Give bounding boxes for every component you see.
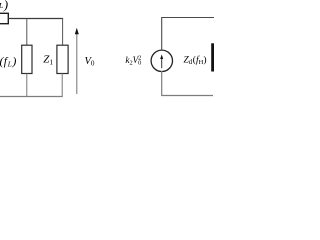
wire R1 top drop [26, 18, 28, 45]
wire top horizontal [9, 18, 64, 20]
impedance Z1 box [57, 45, 68, 73]
resistor R1 box [22, 45, 32, 73]
arrow V0 line [76, 34, 78, 95]
wire Z1 top drop [62, 18, 64, 45]
wire R1 bottom [26, 74, 28, 97]
wire Z1 bottom [61, 74, 63, 97]
svg-text:Zd(fH): Zd(fH) [184, 55, 207, 67]
current source arrow line [161, 58, 163, 69]
arrow V0 head [75, 28, 79, 35]
current source arrow head [160, 54, 163, 59]
wire bottom bus left circuit [0, 96, 63, 98]
current source circle [151, 50, 172, 71]
impedance box right edge (cut off) [211, 43, 214, 71]
wire source bottom [162, 71, 213, 96]
wire source top [162, 18, 214, 51]
resistor box left (cut off) [0, 13, 8, 23]
svg-text:k2V20: k2V20 [125, 54, 141, 66]
